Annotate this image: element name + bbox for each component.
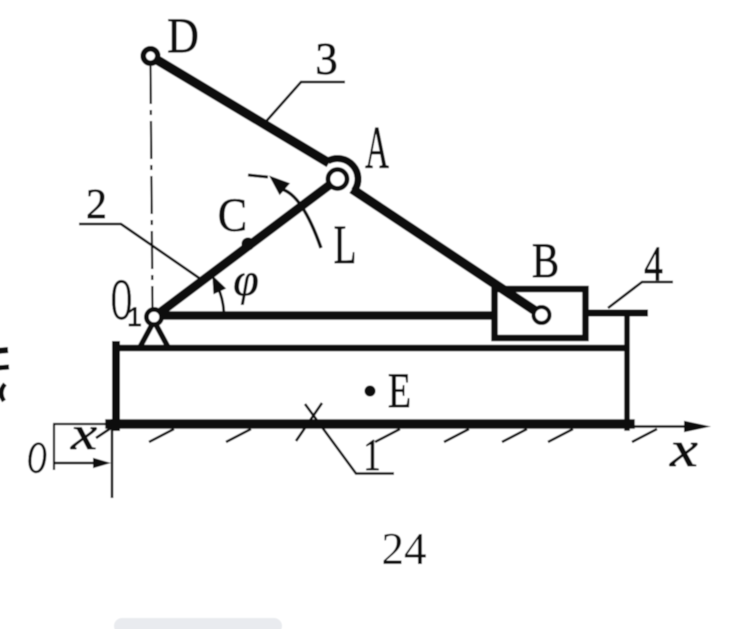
x offset bracket: left tick [53,424,55,470]
pin D [143,49,158,64]
svg-text:x: x [669,423,698,478]
svg-text:4: 4 [644,236,663,291]
svg-text:L: L [334,215,357,276]
body 1: bottom edge / ground line [110,419,630,429]
svg-text:O: O [27,432,47,481]
rotation arc L around A [281,189,321,248]
x-axis line to the right [629,425,696,428]
rotation arrow overshoot stroke [248,175,268,177]
pin O1 [146,309,161,324]
rotation arc arrowhead [269,176,290,196]
leader for label 2 [79,224,202,280]
body 1: left edge [112,345,120,427]
link 3: rod from D to A [151,56,330,163]
svg-text:1: 1 [127,302,142,332]
partial letter fragments at left edge [0,350,9,401]
phi arc arrowhead [212,275,226,294]
svg-text:3: 3 [315,34,338,84]
x offset bracket: top line [53,423,112,425]
svg-text:x: x [70,407,98,459]
ground hatching [96,403,657,442]
pin A [328,170,347,189]
link 3: rod from A to slider pin B [352,189,542,315]
leader for label 1 [305,404,394,474]
body 1: right edge [624,317,630,428]
pin B [534,307,550,323]
svg-text:φ: φ [233,254,258,305]
body 1: base rectangle top edge [116,345,622,352]
slider block B [495,289,586,338]
svg-text:A: A [365,116,389,182]
svg-text:C: C [218,188,247,241]
svg-text:E: E [388,362,411,418]
svg-text:2: 2 [86,182,107,228]
x offset arrow [54,462,98,464]
guide bar 4, left segment [162,311,494,320]
dash-dot centerline from D to O1 [151,66,153,308]
grey UI bar fragment at bottom edge [114,618,282,629]
link 2: rod from O1 through C to A [154,179,338,317]
vertical reference line below origin [111,419,114,498]
svg-text:B: B [532,232,559,288]
svg-text:24: 24 [382,524,427,574]
link 3: eye wrapped around pin A [328,158,358,190]
guide bar 4, right segment [586,310,648,317]
svg-text:1: 1 [363,429,380,480]
point C marker [242,238,255,251]
x-axis arrowhead [684,421,711,433]
leader for label 4 [608,282,673,308]
svg-text:D: D [167,8,199,63]
leader for label 3 [262,82,345,126]
phi angle arc [217,286,224,312]
fixed support triangle at O1 [140,321,168,347]
point E marker [365,386,376,397]
